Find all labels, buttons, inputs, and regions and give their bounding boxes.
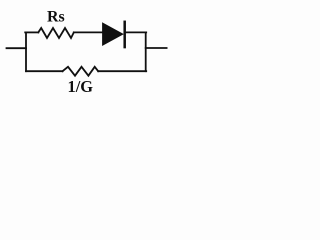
resistor 1/G bbox=[63, 67, 99, 76]
wire top branch right bbox=[126, 31, 147, 33]
wire right vertical bus bbox=[145, 32, 147, 71]
svg-text:1/G: 1/G bbox=[68, 77, 94, 96]
wire top branch left bbox=[25, 31, 38, 33]
resistor Rs bbox=[38, 28, 74, 38]
wire right terminal stub bbox=[146, 47, 167, 49]
wire left terminal stub bbox=[7, 47, 27, 49]
wire bottom branch right bbox=[98, 70, 146, 72]
wire left vertical bus bbox=[25, 32, 27, 71]
svg-text:Rs: Rs bbox=[47, 9, 65, 26]
diode D1 bbox=[103, 22, 125, 47]
wire top branch middle bbox=[74, 31, 103, 33]
wire bottom branch left bbox=[26, 70, 63, 72]
